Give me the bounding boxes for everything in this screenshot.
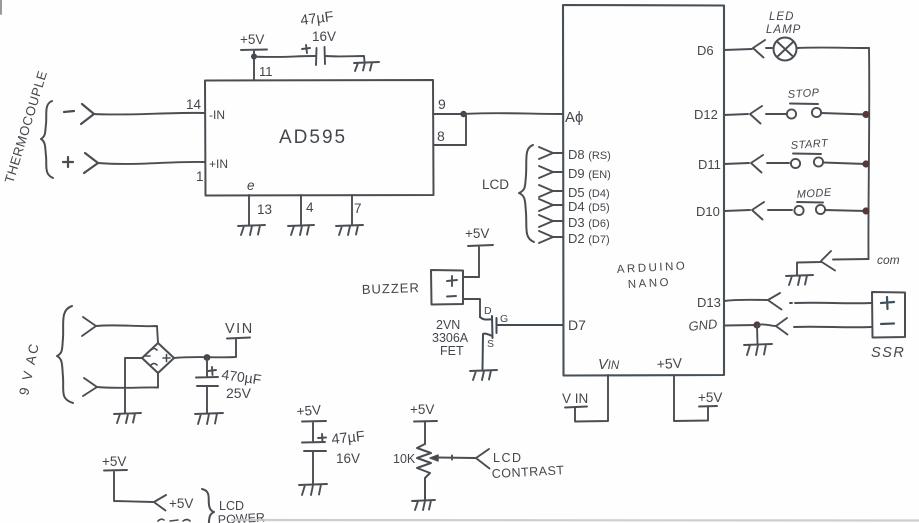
ground	[195, 413, 223, 424]
pin 11 label	[259, 64, 273, 79]
pin 8 label	[437, 128, 445, 144]
svg-text:D7: D7	[568, 317, 586, 333]
switch MODE	[794, 206, 803, 215]
wire	[97, 373, 158, 388]
pin -IN label	[209, 108, 225, 122]
svg-text:25V: 25V	[226, 385, 252, 401]
pin 9 wire	[433, 113, 463, 115]
svg-text:CONTRAST: CONTRAST	[491, 463, 564, 481]
wire	[823, 163, 866, 165]
svg-text:GND: GND	[688, 316, 718, 334]
ground	[288, 225, 314, 235]
pin D7 label	[568, 317, 586, 333]
svg-text:MODE: MODE	[796, 187, 832, 201]
capacitor C2 47uF 16V	[302, 434, 326, 484]
pin 4 label	[306, 200, 314, 215]
svg-text:NANO: NANO	[628, 277, 672, 291]
pot wiper arrow	[430, 455, 438, 461]
label LCD CONTRAST	[491, 451, 564, 481]
thermocouple label	[2, 69, 51, 185]
wire to SSR minus	[794, 326, 871, 329]
svg-text:V IN: V IN	[562, 391, 588, 406]
ground	[238, 225, 265, 235]
wire	[174, 339, 236, 358]
MCU Arduino Nano	[563, 5, 724, 376]
label LCD	[482, 177, 509, 192]
connector LCD RS	[539, 147, 563, 159]
ground	[336, 225, 363, 235]
pin e label	[247, 178, 255, 193]
svg-text:+IN: +IN	[209, 157, 228, 171]
svg-text:+5V: +5V	[465, 226, 489, 241]
connector LCD D6	[539, 215, 563, 227]
pin D12 label	[694, 107, 718, 122]
connector minus input	[64, 104, 94, 124]
wire D13	[724, 300, 767, 301]
svg-text:-IN: -IN	[209, 108, 225, 122]
wire	[463, 276, 479, 278]
svg-text:47µF: 47µF	[331, 429, 366, 448]
wire D6	[724, 49, 752, 50]
svg-text:8: 8	[437, 128, 445, 144]
transistor Q1 2VN3306A FET	[480, 316, 562, 369]
connector LCD contrast	[476, 449, 490, 469]
label BUZZER	[362, 280, 420, 297]
svg-text:LED: LED	[769, 11, 794, 23]
brace 9VAC	[57, 306, 73, 403]
ground	[114, 413, 141, 423]
ground	[786, 275, 813, 285]
wire com	[833, 258, 869, 261]
+5V supply pot	[414, 421, 437, 444]
capacitor C3 470uF 25V	[196, 358, 218, 414]
label 16V	[312, 29, 336, 44]
bottom scan smudge	[232, 519, 919, 522]
terminal VIN	[227, 338, 250, 339]
svg-text:FET: FET	[440, 344, 464, 358]
wire	[438, 456, 475, 460]
label 47uF	[300, 9, 335, 29]
svg-text:G: G	[500, 313, 508, 325]
pin D5 (D4) label	[568, 185, 610, 200]
connector D12	[750, 106, 786, 124]
pin 11 wire	[253, 56, 255, 80]
svg-text:com: com	[877, 253, 900, 267]
pin A0 label	[565, 109, 583, 126]
terminal VIN	[565, 407, 587, 408]
svg-text:e: e	[247, 178, 255, 193]
partial text GND cut	[158, 519, 190, 521]
connector D6	[753, 40, 772, 58]
svg-text:4: 4	[306, 200, 314, 215]
+5V supply buzzer	[468, 245, 493, 277]
wire	[325, 56, 365, 62]
svg-text:+5V: +5V	[240, 32, 264, 47]
wire D10	[724, 210, 750, 211]
svg-text:+5V: +5V	[410, 402, 434, 417]
svg-text:D13: D13	[697, 295, 721, 310]
svg-text:STOP: STOP	[787, 87, 820, 101]
svg-text:AD595: AD595	[279, 127, 347, 148]
svg-text:2VN: 2VN	[436, 318, 460, 332]
svg-text:LCD: LCD	[482, 177, 509, 192]
junction node	[862, 207, 869, 214]
junction node	[862, 160, 869, 167]
svg-text:D10: D10	[696, 204, 720, 219]
label 16V	[336, 451, 360, 466]
ground	[412, 500, 435, 510]
svg-text:14: 14	[186, 97, 202, 112]
svg-text:+5V: +5V	[656, 355, 683, 372]
svg-text:+5V: +5V	[102, 454, 126, 469]
svg-text:S: S	[487, 338, 494, 350]
junction node	[862, 111, 869, 118]
wire	[797, 47, 869, 49]
connector D13	[768, 293, 782, 310]
svg-text:SSR: SSR	[871, 345, 905, 361]
wire to SSR	[790, 302, 871, 305]
pin D6 label	[697, 43, 714, 58]
pin 7 wire	[351, 195, 353, 225]
svg-text:16V: 16V	[312, 29, 336, 44]
pin 1 label	[196, 169, 204, 184]
svg-text:D11: D11	[698, 157, 721, 172]
svg-text:+5V: +5V	[296, 402, 321, 419]
pin D11 label	[698, 157, 721, 172]
connector +5V LCD power	[154, 495, 166, 511]
wire	[821, 113, 866, 115]
svg-text:11: 11	[259, 64, 273, 79]
svg-text:9 V AC: 9 V AC	[16, 341, 42, 397]
pin D9 (EN) label	[568, 166, 611, 181]
ground	[744, 326, 772, 355]
pin D4 (D5) label	[568, 199, 610, 214]
label 25V	[226, 385, 252, 401]
connector LCD D4	[539, 185, 563, 197]
svg-text:POWER: POWER	[217, 511, 265, 523]
svg-text:13: 13	[257, 202, 272, 217]
wire +5V	[674, 375, 708, 421]
svg-text:D8 (RS): D8 (RS)	[568, 147, 611, 162]
svg-text:D5 (D4): D5 (D4)	[568, 185, 610, 200]
+5V supply	[241, 50, 267, 57]
pin D2 (D7) label	[568, 231, 610, 246]
svg-text:D6: D6	[697, 43, 714, 58]
label LCD POWER	[217, 499, 265, 523]
svg-text:+5V: +5V	[698, 390, 722, 405]
+5V supply LCD power	[104, 470, 153, 502]
pin 13 wire	[248, 195, 250, 225]
pin 7 label	[354, 201, 362, 216]
connector COM	[797, 251, 835, 276]
label 9VAC	[16, 341, 42, 397]
svg-text:D3 (D6): D3 (D6)	[568, 215, 610, 230]
svg-text:LAMP: LAMP	[766, 24, 801, 36]
capacitor C1 47uF 16V	[302, 45, 325, 65]
junction node	[753, 321, 760, 328]
svg-text:1: 1	[196, 169, 204, 184]
junction node	[251, 54, 257, 60]
label 2VN 3306A FET	[432, 318, 469, 358]
connector D10	[752, 202, 792, 220]
label 10K	[393, 452, 416, 466]
svg-text:VIN: VIN	[598, 357, 620, 373]
svg-text:LCD: LCD	[493, 451, 523, 465]
pin 14 label	[186, 97, 202, 112]
switch START	[791, 159, 800, 168]
connector AC bottom	[83, 378, 97, 396]
connector plus input	[63, 153, 98, 173]
brace LCD power	[202, 489, 214, 523]
bridge rectifier BR1	[142, 343, 174, 373]
connector D11	[751, 155, 789, 173]
wire D11	[724, 163, 749, 164]
svg-text:BUZZER: BUZZER	[362, 280, 420, 297]
wire to A0	[463, 112, 563, 115]
wire	[98, 162, 205, 164]
svg-text:9: 9	[438, 96, 446, 112]
svg-text:16V: 16V	[336, 451, 360, 466]
pin GND label	[688, 316, 718, 334]
connector LCD EN	[539, 166, 563, 178]
junction node	[204, 354, 211, 361]
pin 9 label	[438, 96, 446, 112]
pin VIN label	[598, 357, 620, 373]
svg-text:7: 7	[354, 201, 362, 216]
svg-text:+5V: +5V	[169, 496, 193, 511]
junction node A0	[460, 111, 466, 117]
svg-text:D12: D12	[694, 107, 718, 122]
buzzer BZ1	[431, 270, 463, 305]
pin +IN label	[209, 157, 228, 171]
wire	[94, 113, 205, 115]
pin 4 wire	[300, 195, 302, 225]
potentiometer R1 10K	[417, 444, 431, 500]
svg-text:D9 (EN): D9 (EN)	[568, 166, 611, 181]
brace thermocouple	[41, 101, 53, 178]
bus wire	[867, 48, 870, 259]
left edge scan mark	[0, 0, 2, 14]
label 47uF	[331, 429, 366, 448]
connector LCD D5	[539, 199, 563, 211]
switch STOP	[787, 109, 796, 118]
label com	[877, 253, 900, 267]
IC U1 AD595	[205, 80, 434, 196]
svg-text:THERMOCOUPLE: THERMOCOUPLE	[2, 69, 51, 185]
ground	[299, 484, 327, 495]
label LED LAMP	[766, 11, 801, 36]
ground	[354, 62, 379, 71]
svg-text:VIN: VIN	[225, 321, 254, 337]
connector LCD D7	[539, 231, 563, 243]
wire GND	[724, 324, 757, 327]
pin D10 label	[696, 204, 720, 219]
wire	[463, 299, 480, 317]
svg-text:47µF: 47µF	[300, 9, 335, 29]
+5V supply filter cap	[302, 421, 326, 441]
pin 8 wire	[434, 114, 467, 145]
SSR K1	[872, 292, 905, 338]
ground	[470, 370, 497, 380]
svg-text:D: D	[484, 305, 492, 317]
wire VIN	[575, 375, 608, 422]
wire	[125, 358, 142, 413]
pin 13 label	[257, 202, 272, 217]
label SSR	[871, 345, 905, 361]
pin D3 (D6) label	[568, 215, 610, 230]
wire	[96, 325, 158, 343]
connector AC top	[82, 317, 96, 336]
svg-text:START: START	[790, 137, 829, 152]
label 470uF	[221, 366, 263, 387]
connector GND	[757, 318, 788, 335]
wire	[254, 56, 315, 57]
pin D13 label	[697, 295, 721, 310]
svg-text:3306A: 3306A	[432, 331, 469, 345]
pin D8 (RS) label	[568, 147, 611, 162]
svg-text:D4 (D5): D4 (D5)	[568, 199, 610, 214]
svg-text:ARDUINO: ARDUINO	[617, 260, 688, 276]
svg-text:10K: 10K	[393, 452, 416, 466]
svg-text:D2 (D7): D2 (D7)	[568, 231, 610, 246]
svg-text:Aϕ: Aϕ	[565, 109, 583, 126]
brace LCD	[519, 145, 534, 242]
terminal +5V	[699, 405, 717, 408]
LED lamp DS1	[774, 38, 797, 61]
wire	[825, 210, 866, 211]
wire D12	[724, 114, 748, 115]
pin +5V label	[656, 355, 683, 372]
